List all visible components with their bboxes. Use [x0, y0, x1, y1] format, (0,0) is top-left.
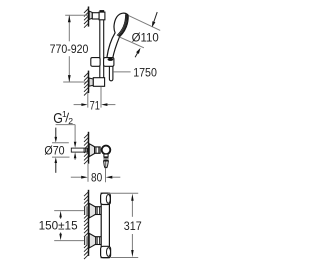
thermostat top inlet escutcheon [89, 203, 96, 218]
dimension Ø70 lower arrow line [55, 157, 58, 163]
dimension 770-920 bottom extension line [63, 81, 85, 83]
svg-text:Ø110: Ø110 [132, 30, 159, 44]
dimension 317 top extension line [108, 192, 138, 194]
top bracket dark cap [100, 10, 105, 12]
dimension 80 left arrow [81, 176, 88, 179]
bottom inlet stub behind wall [84, 236, 88, 245]
svg-text:770-920: 770-920 [50, 42, 89, 56]
svg-text:80: 80 [91, 170, 102, 184]
dimension 71 left extension line [87, 93, 89, 108]
union elbow knurl [104, 157, 109, 161]
dimension 150±15 top extension line [54, 210, 84, 212]
glide holder dark oval [108, 58, 114, 61]
svg-text:317: 317 [124, 219, 142, 233]
hand shower head and handle [107, 13, 128, 59]
label G 1/2 leader underline [56, 124, 76, 126]
union elbow escutcheon [89, 144, 94, 157]
leader line 1750 [113, 71, 130, 73]
dimension 150±15 bottom extension line [54, 240, 84, 242]
shower hose end [109, 65, 113, 81]
thermostat bottom inlet nut [96, 237, 101, 245]
thermostat bottom inlet escutcheon [89, 233, 96, 248]
dimension 770-920 down arrow [68, 75, 71, 82]
dimension Ø70 bottom extension line [52, 156, 70, 158]
dimension 80 right arrow [106, 176, 113, 179]
svg-text:150±15: 150±15 [39, 219, 78, 233]
dimension 71 right extension line [100, 87, 102, 108]
top bracket arm [92, 13, 99, 19]
dimension 770-920 up arrow [68, 15, 71, 22]
top bracket flange [89, 11, 92, 19]
dimension 770-920 top extension line [65, 14, 88, 16]
dimension Ø70 top extension line [52, 142, 69, 144]
svg-text:71: 71 [90, 98, 100, 112]
dimension Ø110 lower arrow [135, 52, 138, 57]
union elbow outlet taper [104, 161, 109, 168]
svg-text:1: 1 [62, 109, 67, 119]
thermostat bottom cap [101, 246, 111, 257]
union elbow ball joint [102, 146, 111, 155]
bottom bracket flange [89, 78, 93, 86]
wall segment union elbow [84, 132, 89, 164]
dimension Ø70 upper arrow line [55, 128, 57, 138]
dimension 71 right arrow [101, 103, 107, 106]
glide holder right block [104, 58, 114, 67]
dimension 150±15 down arrow [59, 234, 62, 241]
dimension 80 left extension line [87, 164, 89, 182]
wall segment top bracket [84, 7, 89, 28]
dimension 71 dimension line left [74, 104, 82, 106]
slide bar [100, 19, 104, 78]
dimension Ø110 upper tangent line [129, 16, 161, 31]
dimension 80 dimension line right [112, 176, 120, 178]
label G 1/2 leader vertical [74, 125, 76, 142]
dimension 80 dimension line left [71, 176, 82, 178]
dimension 317 bottom extension line [111, 257, 139, 259]
svg-text:Ø70: Ø70 [44, 144, 64, 158]
concealed supply pipe stub G1/2 [71, 148, 88, 152]
dimension Ø110 lower tangent line [120, 37, 144, 48]
glide holder left block [91, 58, 100, 67]
dimension 317 up arrow [131, 194, 134, 201]
dimension 71 left arrow [81, 103, 87, 106]
dimension 770-920 dimension line [68, 15, 70, 41]
hand shower rim lines [117, 14, 127, 36]
dimension 317 down arrow [131, 250, 134, 257]
svg-text:1750: 1750 [133, 66, 157, 80]
dimension 150±15 up arrow [59, 211, 62, 218]
union elbow nut [95, 147, 101, 153]
dimension Ø110 upper arrow [154, 12, 158, 22]
thermostat top inlet nut [96, 207, 101, 215]
dimension 80 right extension line [105, 168, 107, 182]
wall segment bottom bracket [84, 71, 89, 96]
bottom bracket block [93, 78, 104, 87]
top bracket clamp [99, 12, 105, 20]
dimension 317 dimension line [131, 199, 133, 217]
label G 1/2 up arrow [74, 152, 77, 158]
union elbow outlet neck [104, 154, 108, 157]
label G 1/2 down arrow [74, 142, 77, 148]
thermostat body tube [101, 193, 109, 257]
top inlet stub behind wall [84, 206, 88, 215]
dimension 71 dimension line right [107, 104, 115, 106]
thermostat top cap [101, 193, 111, 204]
wall segment thermostat [84, 190, 89, 259]
